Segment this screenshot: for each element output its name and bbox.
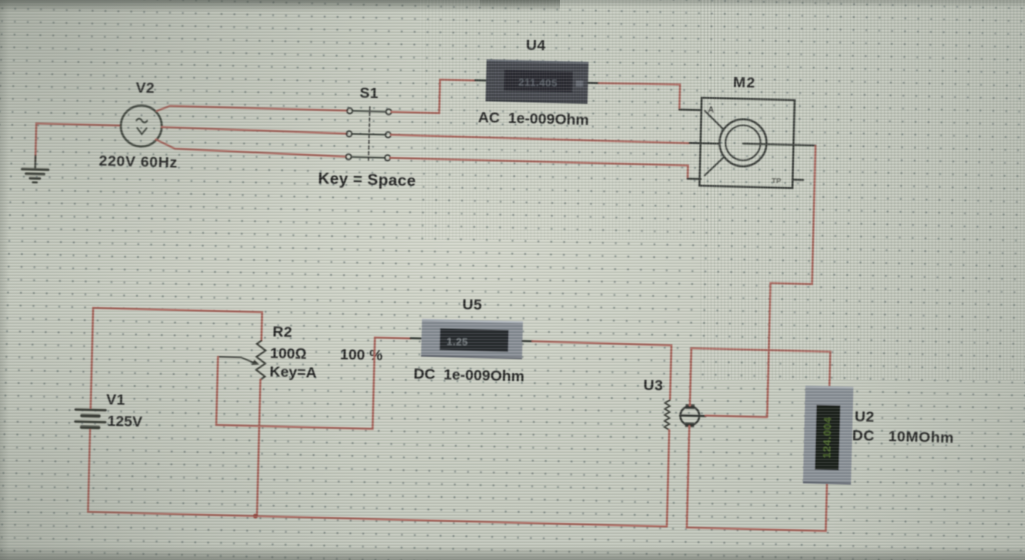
wire: V2 top terminal to S1 pole1 (157, 106, 347, 116)
wire: ground to V2 left terminal (35, 123, 120, 163)
pin stub U5 left (410, 337, 421, 339)
pin stub U5 right (522, 340, 532, 342)
switch S1 (3 poles) (346, 106, 392, 162)
pin stub U4 left (475, 79, 486, 81)
U3 field coil (664, 400, 670, 430)
ground (22, 156, 49, 183)
wire: U3 bottom to U2 bottom (687, 426, 829, 531)
ammeter U5 (421, 319, 523, 360)
wire: S1 pole1 to U4 left (391, 78, 475, 114)
wire: S1 pole3 to M2 bottom terminal (390, 158, 688, 179)
wire: U3 right to M2 return (706, 416, 767, 418)
wire: R2 wiper loop to U5 left (216, 334, 410, 430)
ammeter U4 (486, 59, 589, 104)
R2 wiper arrow (218, 357, 254, 363)
wire: V2 middle terminal to S1 pole2 (162, 127, 347, 134)
wire: V1 plus up and across to R2 top (91, 308, 263, 414)
wire: S1 pole2 to M2 middle terminal (391, 135, 690, 143)
pin stub M2 middle (690, 142, 720, 145)
wire: U5 right down to bottom rail (531, 341, 671, 399)
pin stub M2 TP (793, 179, 803, 181)
machine M2 (699, 98, 816, 189)
pin stub M2 A (679, 109, 701, 112)
AC source V2 (120, 105, 162, 147)
edge shading (0, 0, 420, 300)
battery V1 (75, 409, 105, 427)
wire: M2 right terminal down to U3 right node (767, 145, 815, 418)
wire: R2 bottom lead down (257, 380, 260, 516)
potentiometer R2 (256, 341, 266, 380)
pin stub U4 right (588, 82, 599, 84)
wire: U4 to M2 terminal A (598, 82, 680, 109)
wire: V2 bottom terminal to S1 pole3 (156, 139, 347, 156)
motor U3 armature (680, 404, 706, 427)
pin stub M2 bottom (688, 178, 701, 180)
wire: coil bottom to bottom rail (667, 430, 669, 526)
wire: U3 top to U2 top (690, 348, 830, 409)
voltmeter U2 (803, 385, 853, 484)
junction (253, 514, 258, 519)
wire: V1 minus bottom rail (88, 427, 669, 526)
